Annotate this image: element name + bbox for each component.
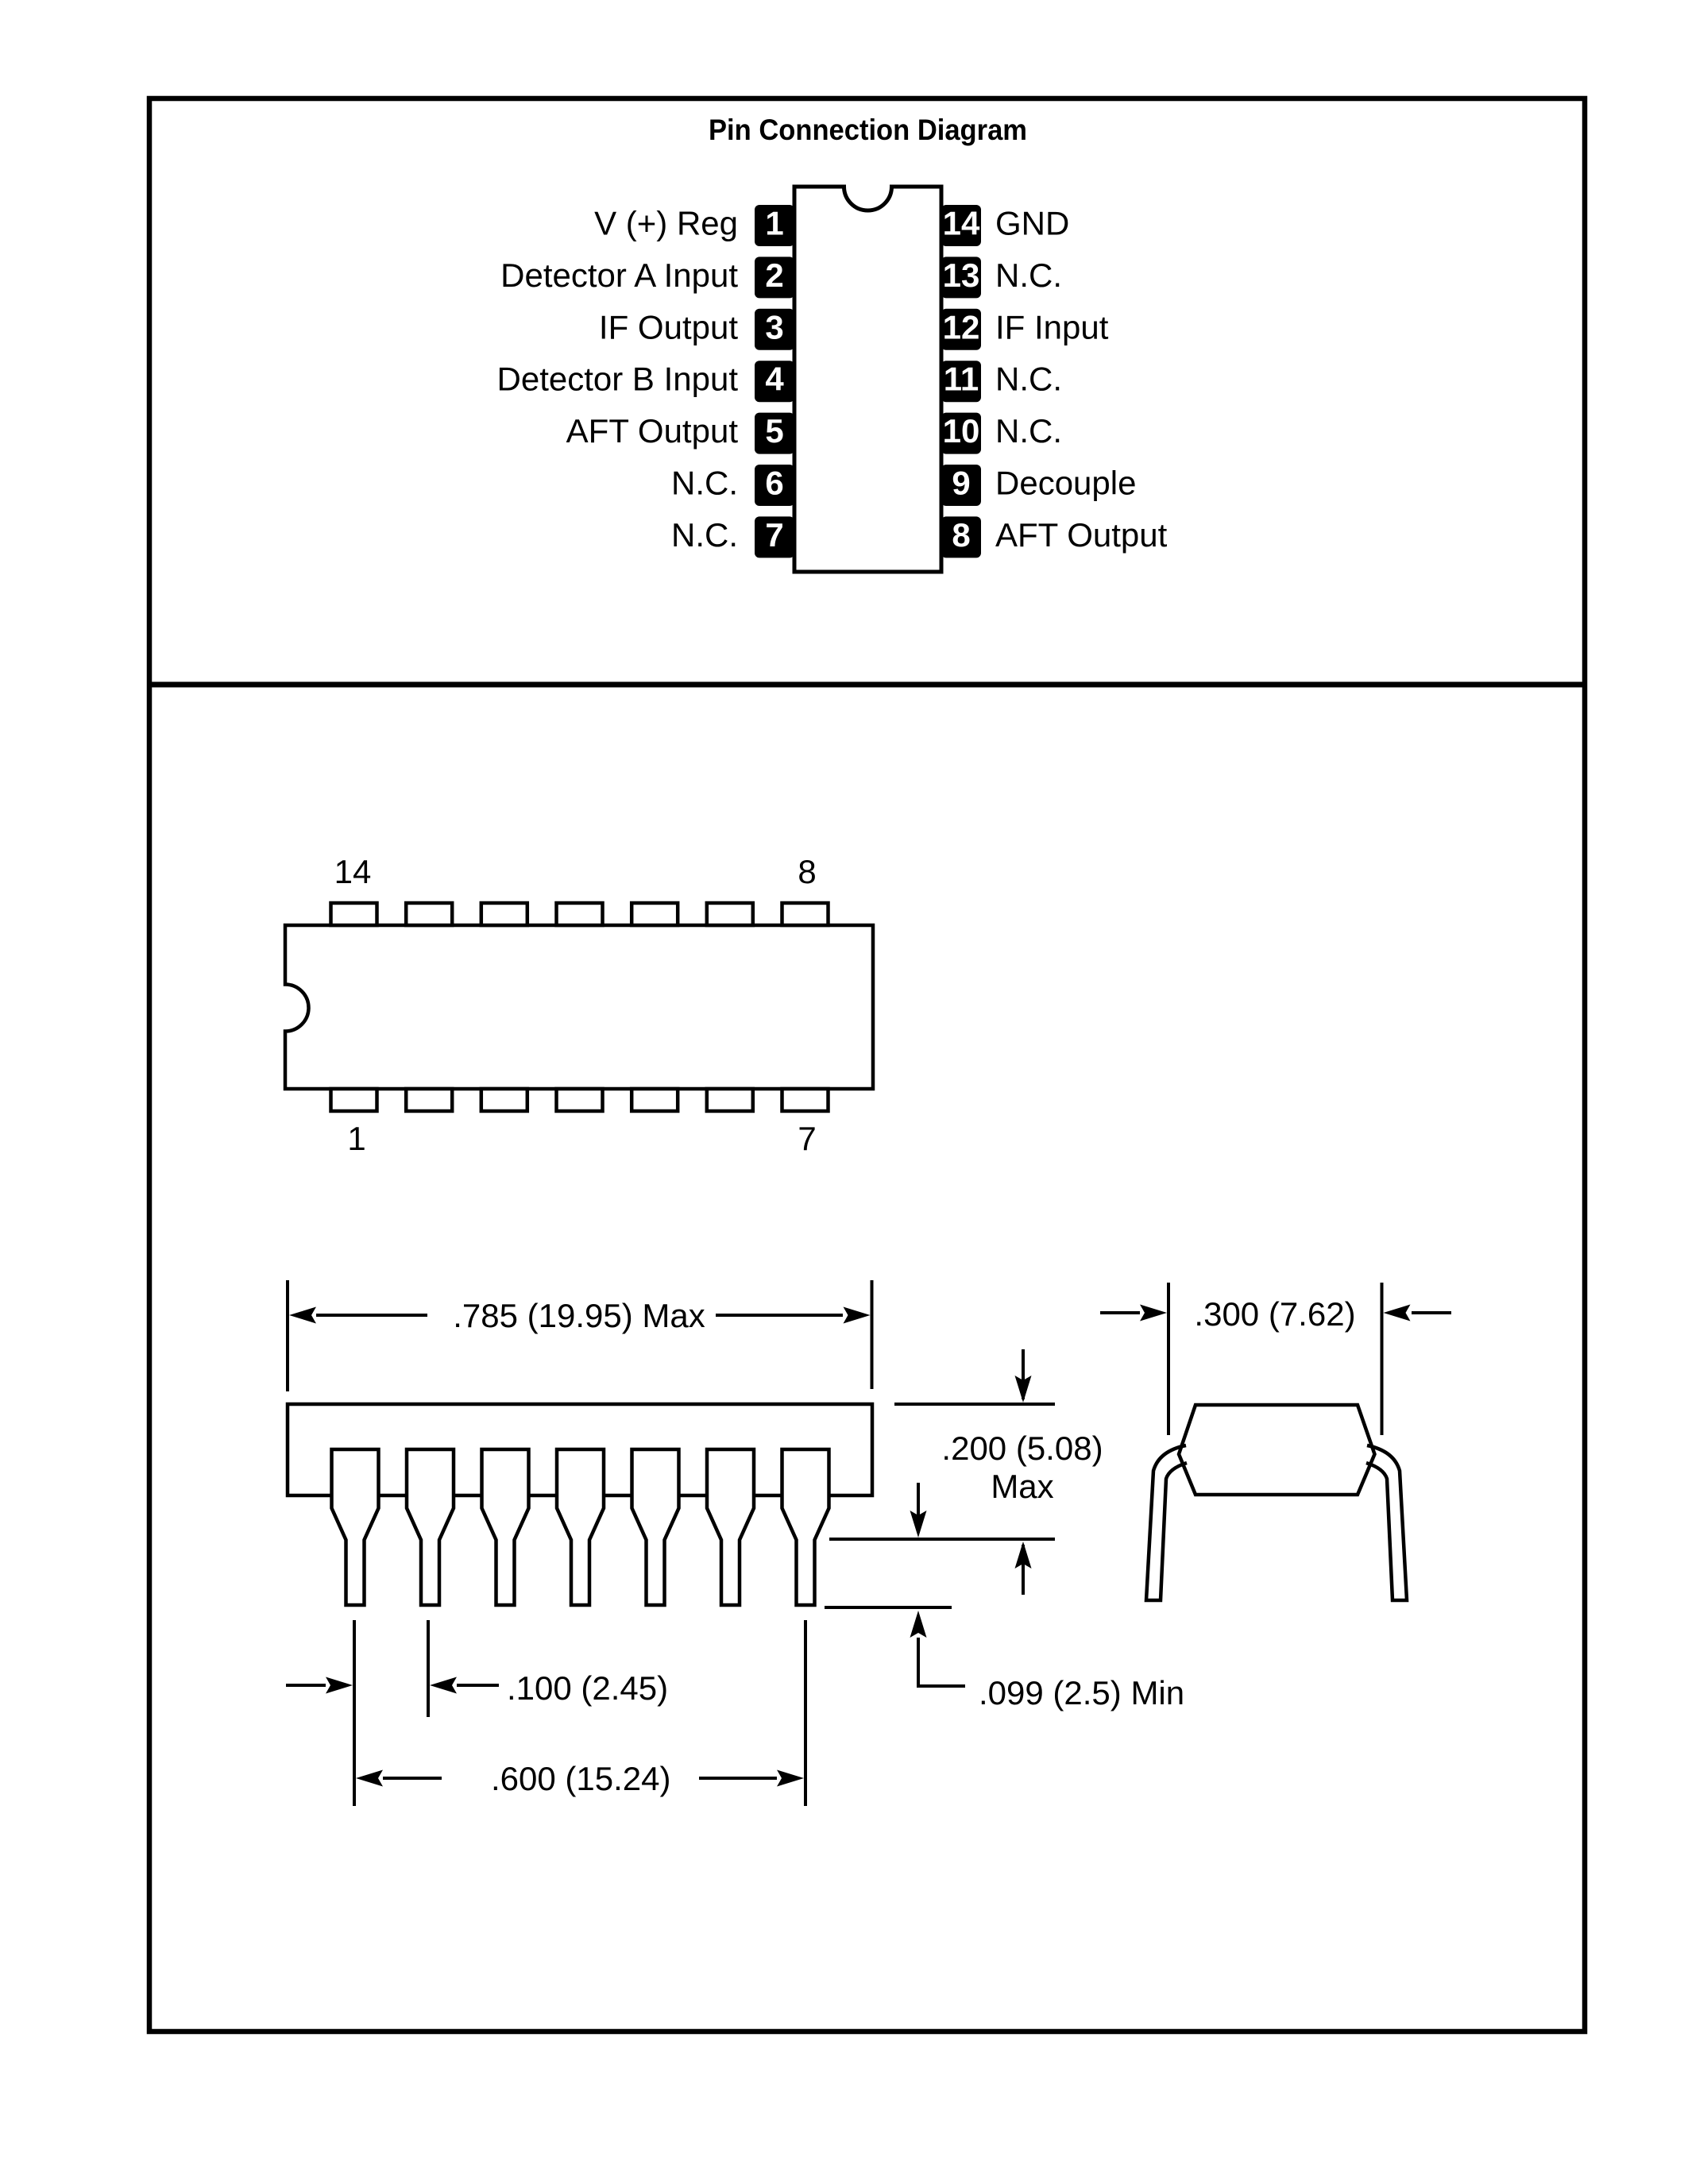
pin 6 label "N.C.": [671, 465, 738, 502]
svg-text:8: 8: [798, 853, 816, 890]
svg-text:.300 (7.62): .300 (7.62): [1194, 1295, 1355, 1333]
svg-text:IF Output: IF Output: [599, 308, 738, 345]
svg-text:GND: GND: [995, 205, 1069, 242]
svg-text:7: 7: [765, 516, 783, 554]
pin 7 label "N.C.": [671, 516, 738, 554]
svg-text:N.C.: N.C.: [671, 465, 738, 502]
pin 5 pad: [755, 412, 794, 454]
package top view body: [285, 925, 873, 1089]
svg-text:Detector A Input: Detector A Input: [500, 257, 738, 294]
svg-text:9: 9: [952, 465, 970, 502]
pin 9 label "Decouple": [995, 465, 1136, 502]
svg-text:14: 14: [943, 205, 980, 242]
top view lead 1: [331, 1089, 377, 1111]
pin 11 pad: [941, 361, 981, 403]
svg-text:V (+) Reg: V (+) Reg: [594, 205, 738, 242]
top view lead 3: [481, 1089, 527, 1111]
svg-text:1: 1: [765, 205, 783, 242]
top view pin number 14: [334, 853, 372, 890]
pin 8 pad: [941, 516, 981, 558]
svg-text:.600 (15.24): .600 (15.24): [491, 1760, 671, 1797]
pin 8 label "AFT Output": [995, 516, 1168, 554]
svg-text:13: 13: [943, 257, 980, 294]
top view lead 7: [782, 1089, 829, 1111]
pin 12 label "IF Input": [995, 308, 1109, 345]
side view lead 1: [332, 1449, 379, 1605]
dimension .099 (2.5) Min: [825, 1483, 1184, 1711]
pin 1 label "V (+) Reg": [594, 205, 738, 242]
svg-text:4: 4: [765, 361, 784, 398]
pin 7 pad: [755, 516, 794, 558]
svg-text:Max: Max: [991, 1468, 1053, 1505]
svg-text:N.C.: N.C.: [995, 361, 1062, 398]
pin 14 pad: [941, 205, 981, 247]
top view pin number 8: [798, 853, 816, 890]
svg-text:6: 6: [765, 465, 783, 502]
svg-text:Decouple: Decouple: [995, 465, 1136, 502]
svg-text:2: 2: [765, 257, 783, 294]
svg-text:AFT Output: AFT Output: [566, 412, 739, 450]
pin 1 pad: [755, 205, 794, 247]
pin 13 label "N.C.": [995, 257, 1062, 294]
pin 4 pad: [755, 361, 794, 403]
top view pin number 1: [347, 1120, 365, 1157]
title: Pin Connection Diagram: [709, 113, 1027, 146]
pin 14 label "GND": [995, 205, 1069, 242]
dimension .600 (15.24) row spacing: [356, 1620, 805, 1806]
pin 12 pad: [941, 308, 981, 350]
dimension .100 (2.45) lead pitch: [286, 1620, 668, 1806]
top view lead 12: [481, 903, 527, 925]
pin 4 label "Detector B Input": [497, 361, 739, 398]
pin 2 label "Detector A Input": [500, 257, 738, 294]
top view lead 2: [406, 1089, 452, 1111]
pin 10 pad: [941, 412, 981, 454]
svg-text:.200 (5.08): .200 (5.08): [941, 1430, 1103, 1467]
svg-text:5: 5: [765, 412, 783, 450]
top view lead 8: [782, 903, 829, 925]
end view package body: [1179, 1405, 1375, 1495]
side view lead 5: [632, 1449, 679, 1605]
svg-text:N.C.: N.C.: [671, 516, 738, 554]
side view package body: [288, 1404, 872, 1495]
top view lead 4: [557, 1089, 603, 1111]
side view lead 2: [407, 1449, 454, 1605]
end view left lead: [1146, 1445, 1187, 1600]
svg-text:N.C.: N.C.: [995, 257, 1062, 294]
svg-text:Pin Connection Diagram: Pin Connection Diagram: [709, 113, 1027, 146]
svg-text:AFT Output: AFT Output: [995, 516, 1168, 554]
pin 3 label "IF Output": [599, 308, 738, 345]
svg-text:.100 (2.45): .100 (2.45): [507, 1669, 668, 1707]
top view lead 14: [331, 903, 377, 925]
pin 11 label "N.C.": [995, 361, 1062, 398]
svg-text:1: 1: [347, 1120, 365, 1157]
side view lead 3: [482, 1449, 529, 1605]
pin 9 pad: [941, 465, 981, 507]
top view lead 13: [406, 903, 452, 925]
end view right lead: [1366, 1445, 1407, 1600]
svg-text:.785 (19.95) Max: .785 (19.95) Max: [453, 1297, 705, 1334]
pin 5 label "AFT Output": [566, 412, 739, 450]
svg-text:12: 12: [943, 308, 980, 345]
svg-text:Detector B Input: Detector B Input: [497, 361, 739, 398]
pin 6 pad: [755, 465, 794, 507]
dimension .785 (19.95) Max: [288, 1280, 872, 1391]
top view lead 9: [707, 903, 753, 925]
svg-text:11: 11: [944, 361, 979, 398]
side view lead 4: [557, 1449, 604, 1605]
svg-text:N.C.: N.C.: [995, 412, 1062, 450]
dimension .300 (7.62): [1100, 1283, 1451, 1435]
top view lead 5: [632, 1089, 678, 1111]
pin 13 pad: [941, 257, 981, 299]
svg-text:7: 7: [798, 1120, 816, 1157]
side view lead 7: [782, 1449, 829, 1605]
svg-text:8: 8: [952, 516, 970, 554]
pin 3 pad: [755, 308, 794, 350]
svg-text:3: 3: [765, 308, 783, 345]
svg-text:10: 10: [943, 412, 980, 450]
pin 10 label "N.C.": [995, 412, 1062, 450]
top view pin number 7: [798, 1120, 816, 1157]
top view lead 10: [632, 903, 678, 925]
top view lead 6: [707, 1089, 753, 1111]
top view lead 11: [557, 903, 603, 925]
pin 2 pad: [755, 257, 794, 299]
svg-text:14: 14: [334, 853, 372, 890]
svg-text:IF Input: IF Input: [995, 308, 1109, 345]
svg-text:.099 (2.5) Min: .099 (2.5) Min: [979, 1674, 1184, 1711]
side view lead 6: [707, 1449, 754, 1605]
dimension .200 (5.08) Max: [829, 1349, 1103, 1595]
IC U1 body (DIP-14 outline with pin-1 notch): [794, 187, 941, 572]
